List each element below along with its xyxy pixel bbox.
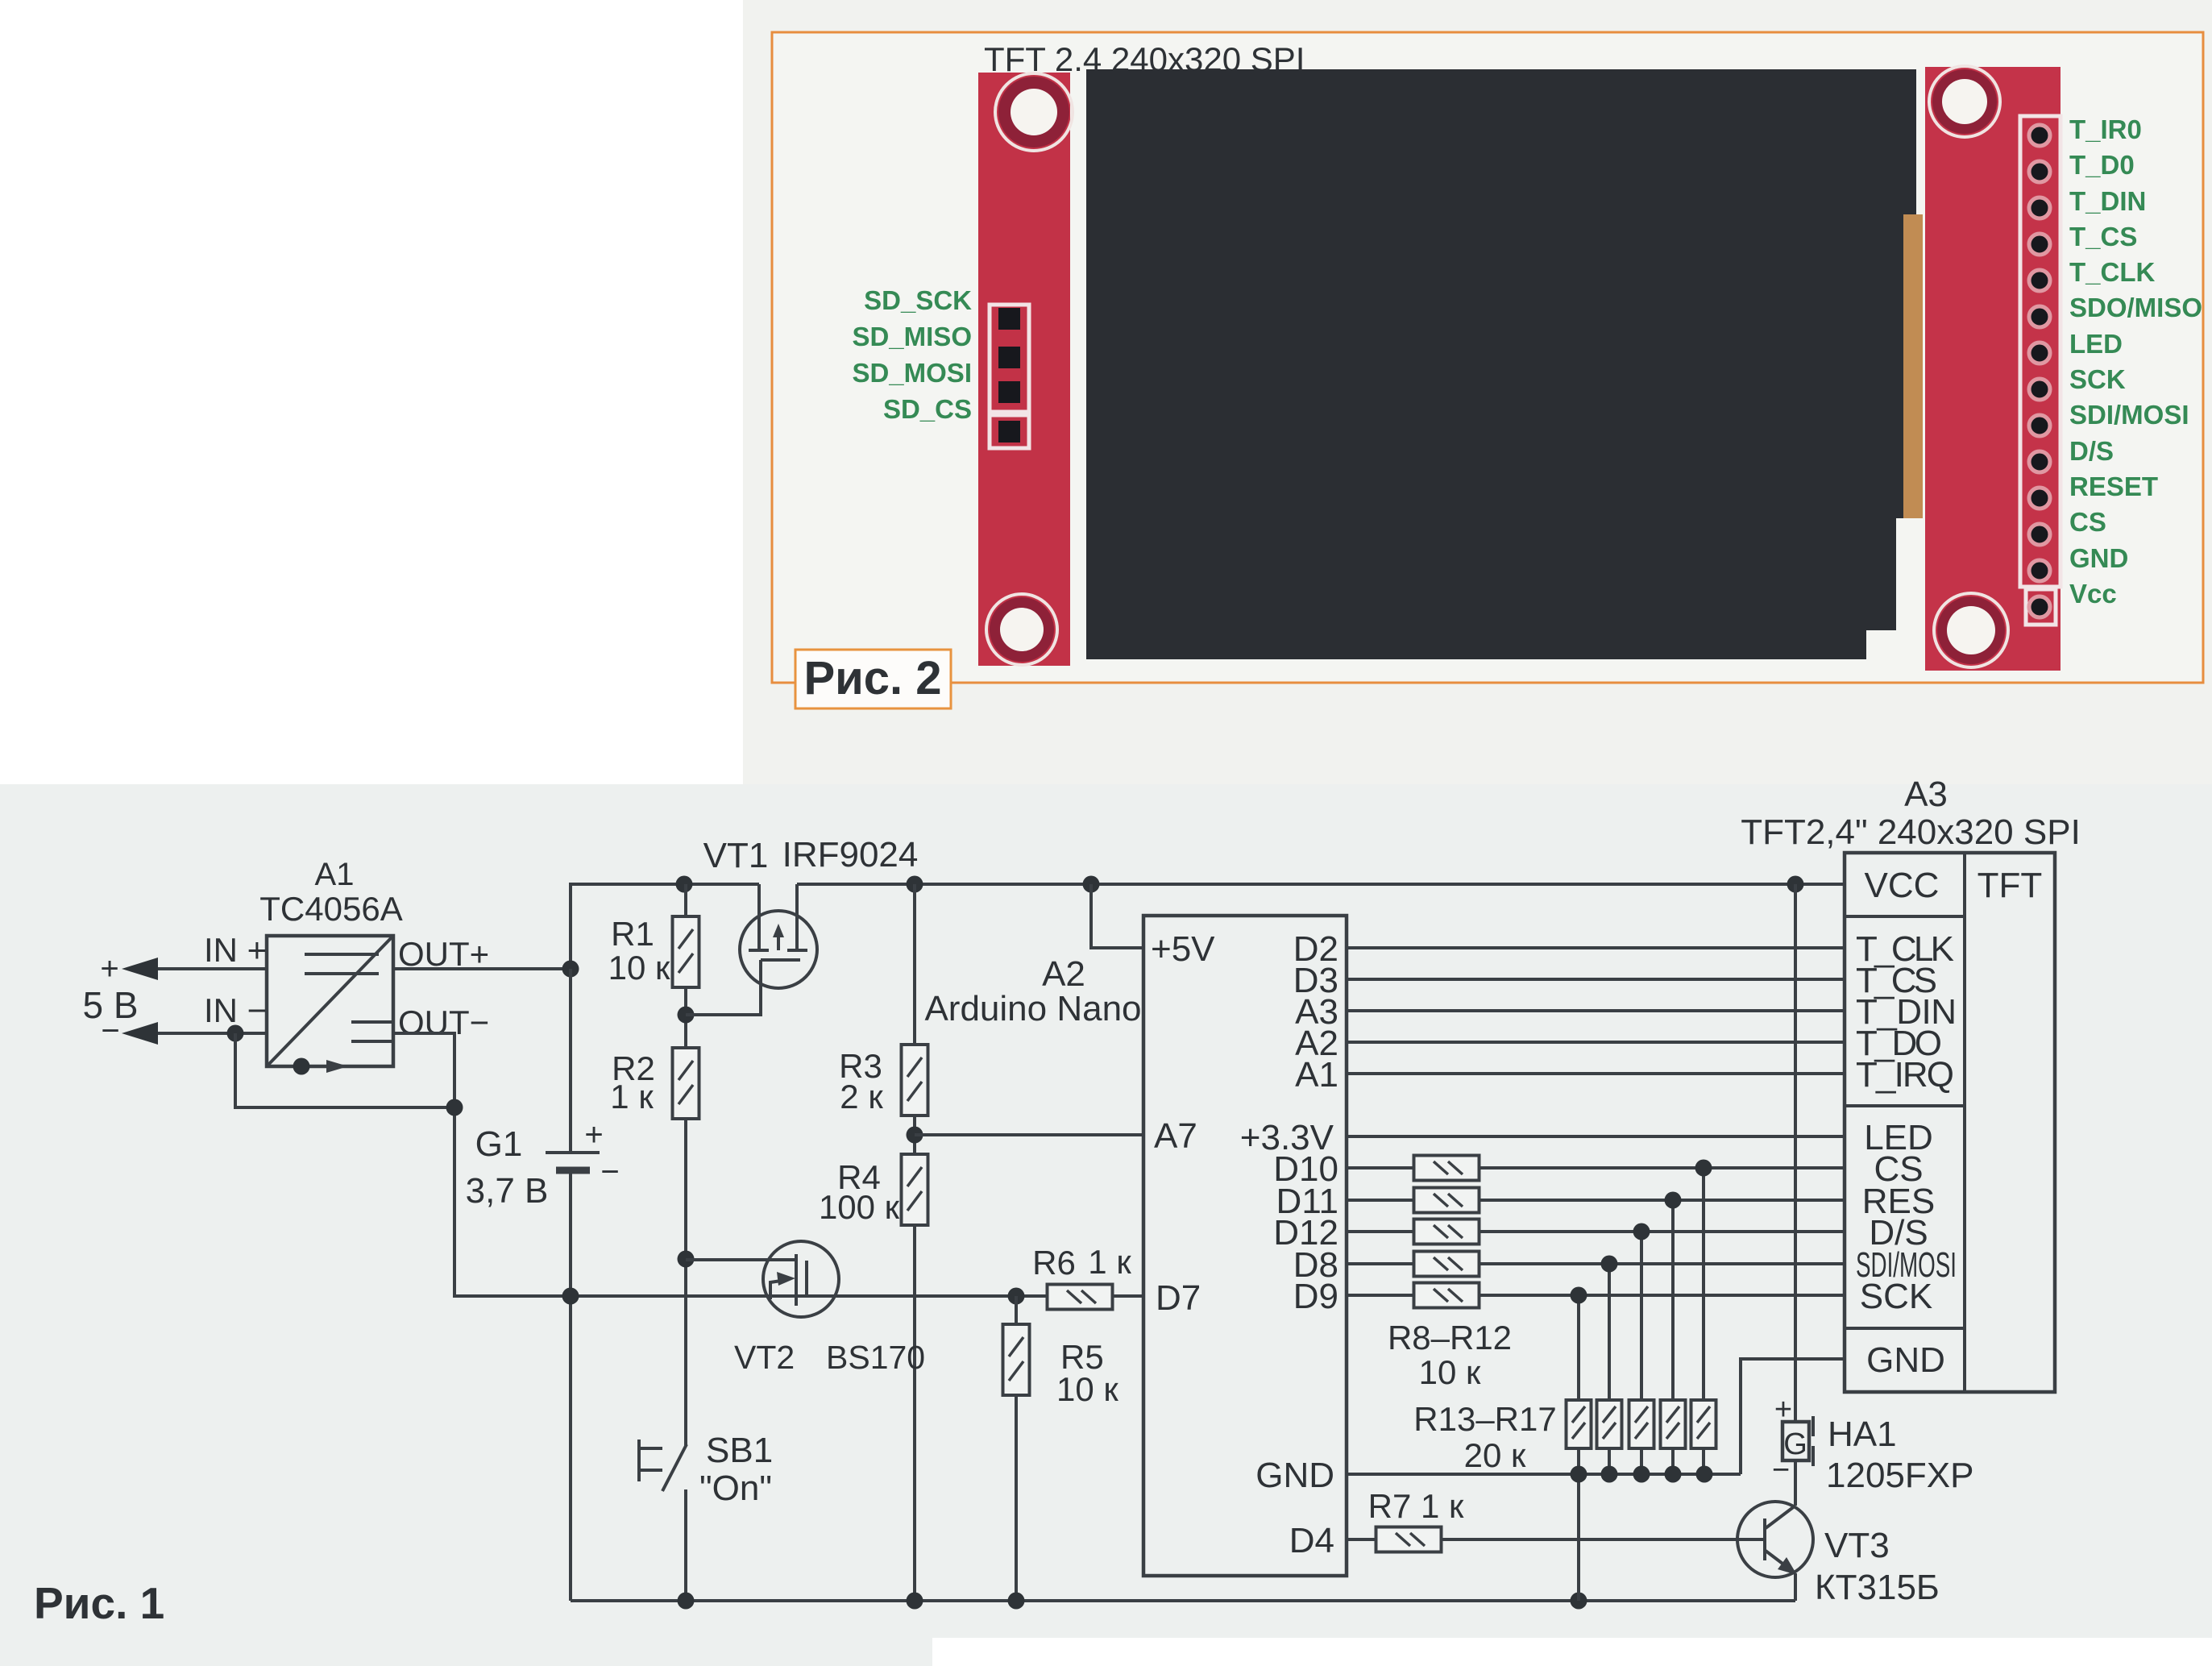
svg-text:OUT+: OUT+ bbox=[398, 935, 489, 973]
svg-text:TC4056A: TC4056A bbox=[259, 890, 402, 928]
svg-text:SD_MISO: SD_MISO bbox=[852, 322, 972, 351]
svg-text:Arduino Nano: Arduino Nano bbox=[924, 989, 1141, 1028]
svg-text:IN +: IN + bbox=[204, 931, 267, 969]
svg-text:A1: A1 bbox=[1295, 1055, 1338, 1095]
svg-text:TFT2,4" 240x320 SPI: TFT2,4" 240x320 SPI bbox=[1741, 812, 2081, 852]
svg-text:SCK: SCK bbox=[2069, 364, 2126, 394]
svg-text:A2: A2 bbox=[1042, 954, 1085, 994]
svg-text:OUT−: OUT− bbox=[398, 1003, 489, 1041]
svg-text:LED: LED bbox=[2069, 329, 2123, 359]
svg-text:SDI/MOSI: SDI/MOSI bbox=[1856, 1245, 1957, 1285]
svg-text:SD_SCK: SD_SCK bbox=[864, 285, 972, 315]
svg-text:Рис. 1: Рис. 1 bbox=[34, 1578, 164, 1628]
svg-text:D7: D7 bbox=[1156, 1278, 1201, 1318]
svg-text:VT1: VT1 bbox=[703, 836, 769, 875]
svg-text:−: − bbox=[1772, 1453, 1790, 1487]
svg-text:10 к: 10 к bbox=[608, 949, 670, 987]
svg-text:IN −: IN − bbox=[204, 991, 267, 1029]
svg-text:+: + bbox=[584, 1117, 603, 1153]
svg-text:T_DIN: T_DIN bbox=[2069, 186, 2146, 216]
svg-text:R7 1 к: R7 1 к bbox=[1368, 1487, 1464, 1525]
svg-text:BS170: BS170 bbox=[826, 1339, 925, 1376]
svg-text:G1: G1 bbox=[475, 1124, 523, 1164]
svg-text:A1: A1 bbox=[315, 857, 355, 892]
svg-text:Рис. 2: Рис. 2 bbox=[803, 652, 941, 704]
svg-text:2 к: 2 к bbox=[840, 1078, 883, 1116]
svg-text:R6: R6 bbox=[1032, 1244, 1076, 1282]
svg-text:Vcc: Vcc bbox=[2069, 579, 2117, 609]
svg-text:3,7 В: 3,7 В bbox=[466, 1171, 549, 1211]
svg-text:A7: A7 bbox=[1154, 1116, 1197, 1156]
svg-text:10 к: 10 к bbox=[1419, 1353, 1481, 1391]
svg-text:VT3: VT3 bbox=[1824, 1526, 1890, 1565]
svg-text:TFT: TFT bbox=[1978, 866, 2043, 905]
svg-text:R8–R12: R8–R12 bbox=[1388, 1319, 1512, 1356]
svg-text:GND: GND bbox=[1255, 1456, 1334, 1495]
svg-text:КТ315Б: КТ315Б bbox=[1815, 1568, 1940, 1607]
svg-text:CS: CS bbox=[2069, 507, 2106, 537]
svg-text:−: − bbox=[600, 1154, 619, 1190]
svg-text:D/S: D/S bbox=[2069, 436, 2114, 466]
svg-text:1 к: 1 к bbox=[1088, 1243, 1131, 1281]
svg-text:100 к: 100 к bbox=[819, 1188, 900, 1226]
svg-text:IRF9024: IRF9024 bbox=[782, 835, 919, 875]
svg-text:1 к: 1 к bbox=[610, 1078, 654, 1116]
svg-text:D4: D4 bbox=[1289, 1521, 1334, 1560]
svg-text:T_D0: T_D0 bbox=[2069, 150, 2135, 180]
svg-text:+: + bbox=[1774, 1393, 1792, 1427]
svg-text:10 к: 10 к bbox=[1056, 1370, 1118, 1408]
svg-text:T_CLK: T_CLK bbox=[2069, 257, 2156, 287]
svg-text:SD_CS: SD_CS bbox=[883, 394, 972, 424]
svg-text:D9: D9 bbox=[1293, 1277, 1338, 1316]
svg-text:"On": "On" bbox=[699, 1469, 772, 1508]
svg-text:GND: GND bbox=[1866, 1340, 1945, 1380]
svg-text:R1: R1 bbox=[611, 915, 654, 953]
svg-text:T_IRQ: T_IRQ bbox=[1856, 1055, 1954, 1095]
svg-text:SB1: SB1 bbox=[706, 1431, 773, 1470]
svg-text:1205FXP: 1205FXP bbox=[1826, 1456, 1973, 1495]
svg-text:T_CS: T_CS bbox=[2069, 222, 2137, 251]
svg-text:GND: GND bbox=[2069, 543, 2128, 573]
svg-text:VT2: VT2 bbox=[734, 1339, 795, 1376]
svg-text:+: + bbox=[100, 951, 118, 987]
svg-text:A3: A3 bbox=[1904, 775, 1948, 814]
svg-text:RESET: RESET bbox=[2069, 472, 2158, 501]
svg-text:SD_MOSI: SD_MOSI bbox=[852, 358, 972, 388]
svg-text:R13–R17: R13–R17 bbox=[1413, 1400, 1556, 1438]
svg-text:HA1: HA1 bbox=[1828, 1415, 1897, 1454]
svg-text:SDO/MISO: SDO/MISO bbox=[2069, 293, 2202, 322]
svg-text:20 к: 20 к bbox=[1464, 1436, 1526, 1474]
svg-text:SDI/MOSI: SDI/MOSI bbox=[2069, 400, 2189, 430]
svg-text:VCC: VCC bbox=[1865, 866, 1940, 905]
svg-text:+5V: +5V bbox=[1151, 929, 1215, 969]
svg-text:T_IR0: T_IR0 bbox=[2069, 114, 2142, 144]
svg-text:−: − bbox=[101, 1013, 119, 1049]
